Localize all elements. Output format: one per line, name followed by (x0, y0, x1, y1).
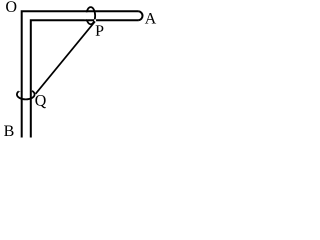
rod OB right line + rod OA bottom line (inner L) (31, 20, 139, 137)
label B (4, 126, 13, 137)
label Q (35, 95, 46, 108)
rod OA rounded end cap at A (139, 11, 143, 20)
string PQ (36, 22, 95, 94)
label O (6, 1, 16, 12)
ring P on rod OA (left side hidden behind rod) (85, 7, 96, 24)
ring Q on rod OB (back arc hidden by rod) (17, 87, 35, 100)
label P (96, 25, 104, 35)
rod OB left line + rod OA top line (outer L) (22, 11, 139, 137)
label A (145, 13, 156, 24)
